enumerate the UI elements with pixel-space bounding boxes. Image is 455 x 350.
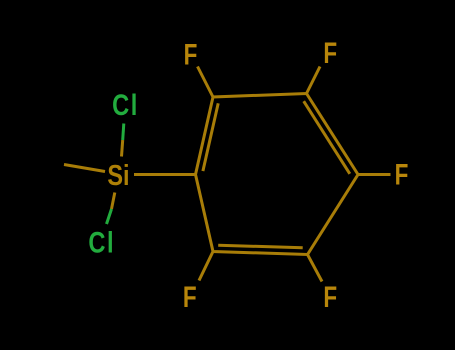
svg-text:Cl: Cl bbox=[112, 88, 139, 121]
bond C4 to F right bbox=[358, 173, 391, 176]
bond C6 to F bottom-left bbox=[199, 252, 213, 281]
bond C2 to F top-left bbox=[198, 67, 214, 98]
bond Si to Cl upper, Cl half bbox=[123, 124, 124, 141]
aromatic inner line C3-C4 bbox=[304, 101, 350, 174]
aromatic inner line C5-C6 bbox=[218, 245, 303, 248]
svg-text:F: F bbox=[184, 37, 198, 71]
svg-text:Si: Si bbox=[107, 158, 129, 191]
svg-text:Cl: Cl bbox=[88, 226, 115, 259]
bond Si to Cl upper, Si half bbox=[122, 140, 123, 157]
svg-text:F: F bbox=[323, 280, 337, 314]
bond Si to Cl lower, Si half bbox=[112, 193, 115, 210]
svg-text:F: F bbox=[183, 280, 197, 314]
bond C5 to F bottom-right bbox=[308, 255, 323, 282]
aromatic inner line C1-C2 bbox=[203, 103, 218, 171]
bond Si to ring C1 bbox=[134, 173, 196, 176]
svg-text:F: F bbox=[323, 36, 337, 70]
bond Si to Cl lower, Cl half bbox=[107, 209, 112, 224]
svg-text:F: F bbox=[395, 157, 409, 191]
bond Si to methyl bbox=[64, 165, 105, 172]
benzene ring C1-C6 bbox=[196, 94, 359, 255]
bond C3 to F top-right bbox=[307, 67, 321, 94]
